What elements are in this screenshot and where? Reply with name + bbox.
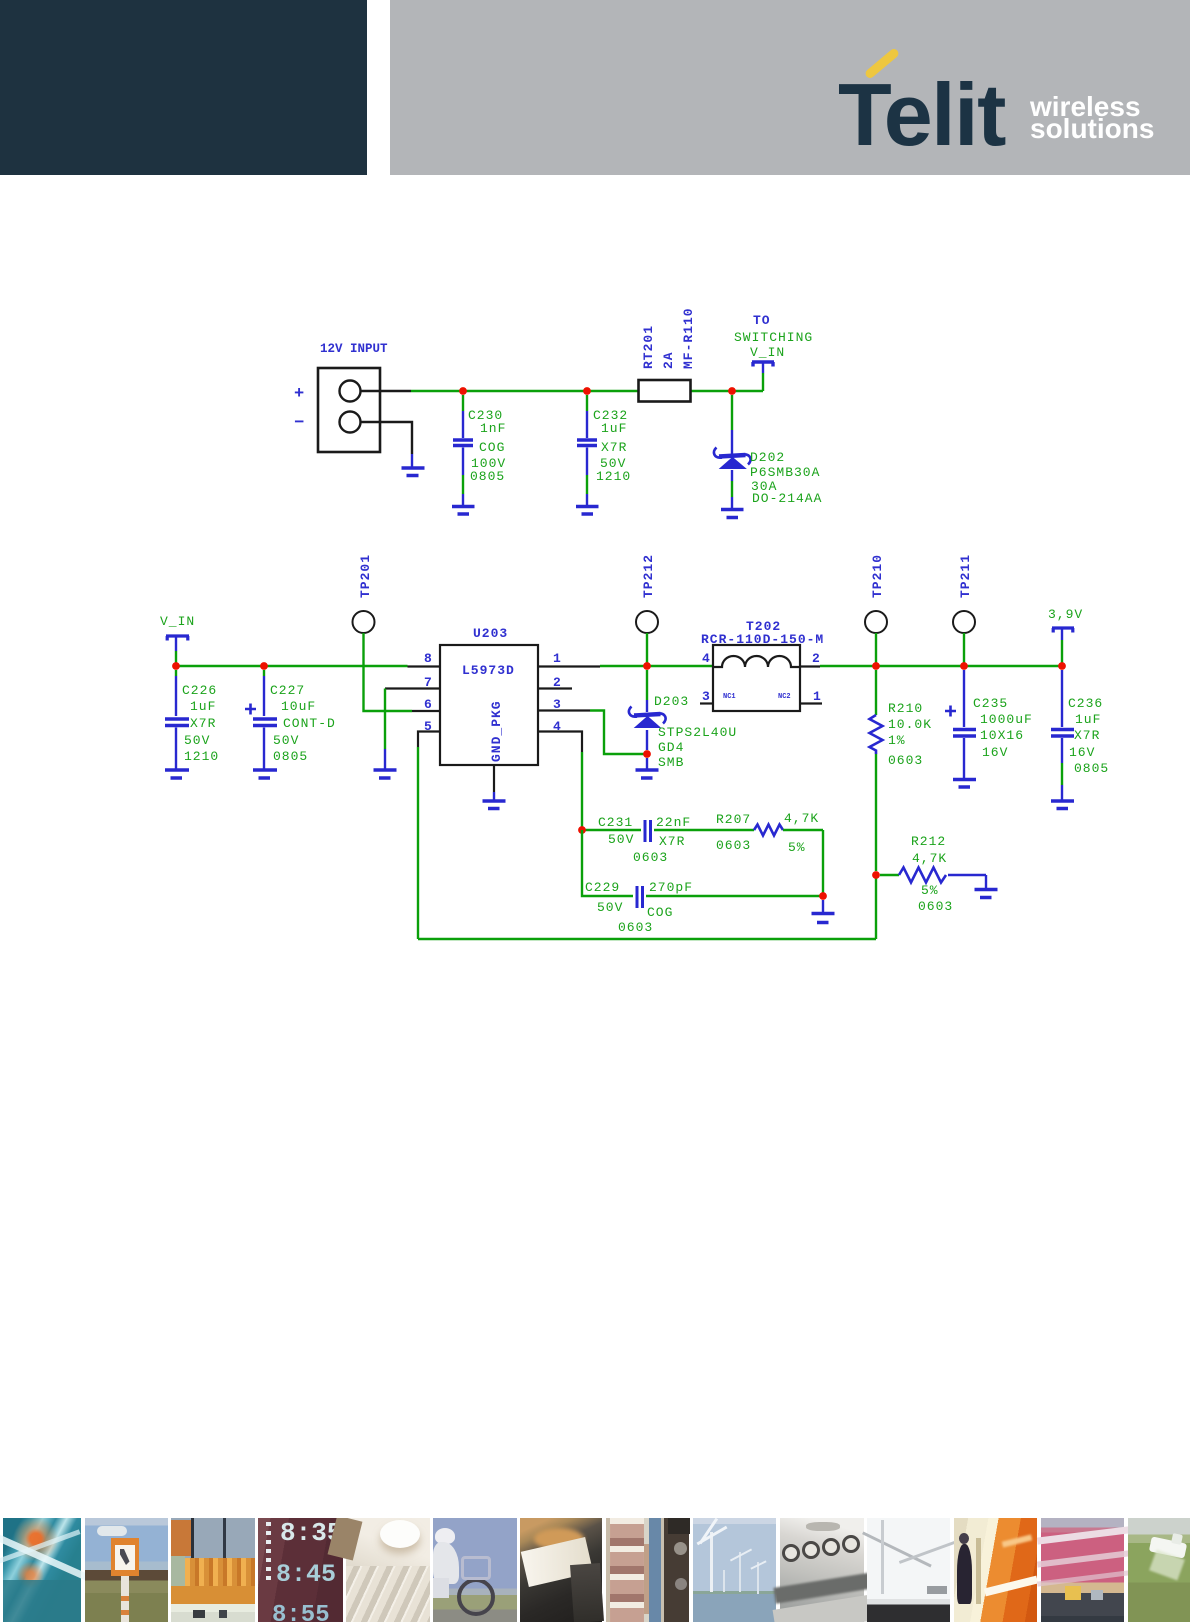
capacitor C235 polarized	[963, 670, 965, 727]
svg-text:TP211: TP211	[958, 554, 973, 598]
svg-text:3,9V: 3,9V	[1048, 607, 1083, 622]
svg-text:NC1: NC1	[723, 693, 736, 701]
C229 wire right	[646, 895, 823, 897]
svg-text:22nF: 22nF	[656, 815, 691, 830]
svg-text:10uF: 10uF	[281, 699, 316, 714]
svg-text:50V: 50V	[184, 733, 210, 748]
svg-text:1%: 1%	[888, 733, 906, 748]
svg-text:MF-R110: MF-R110	[681, 307, 696, 369]
ground D202	[721, 510, 744, 518]
svg-text:D202: D202	[750, 450, 785, 465]
svg-text:270pF: 270pF	[649, 880, 693, 895]
wire TP211 down	[963, 633, 965, 666]
svg-text:+: +	[294, 385, 305, 404]
svg-text:1uF: 1uF	[1075, 712, 1101, 727]
svg-text:1uF: 1uF	[190, 699, 216, 714]
wire black from pin1	[361, 390, 412, 392]
test point TP211	[953, 611, 975, 633]
capacitor C231 row wire left	[582, 829, 641, 831]
photo tile 9 turbines	[693, 1518, 777, 1622]
C229 row wire left	[582, 830, 633, 896]
svg-text:R212: R212	[911, 834, 946, 849]
junction C226	[172, 662, 180, 670]
photo tile 12 subway	[954, 1518, 1038, 1622]
resistor R210	[875, 670, 877, 715]
svg-text:1210: 1210	[596, 469, 631, 484]
capacitor C236	[1061, 670, 1063, 727]
svg-text:2: 2	[812, 651, 821, 666]
power symbol V_IN2	[166, 636, 189, 641]
svg-text:SMB: SMB	[658, 755, 684, 770]
svg-text:0603: 0603	[716, 838, 751, 853]
diode D203 wire	[646, 670, 648, 700]
svg-text:8: 8	[424, 651, 433, 666]
svg-text:R210: R210	[888, 701, 923, 716]
capacitor C226	[175, 670, 177, 676]
svg-text:4: 4	[702, 651, 711, 666]
svg-text:C226: C226	[182, 683, 217, 698]
wire T202 to output	[800, 665, 820, 667]
svg-text:10.0K: 10.0K	[888, 717, 932, 732]
wire TP210 down	[875, 633, 877, 666]
svg-text:50V: 50V	[273, 733, 299, 748]
junction C227	[260, 662, 268, 670]
svg-text:16V: 16V	[1069, 745, 1095, 760]
svg-text:0603: 0603	[633, 850, 668, 865]
filmstrip	[0, 1518, 1190, 1622]
test point TP210	[865, 611, 887, 633]
svg-text:5%: 5%	[921, 883, 939, 898]
svg-text:TP210: TP210	[870, 554, 885, 598]
photo tile 2 phone sign	[85, 1518, 169, 1622]
junction C230	[459, 387, 467, 395]
svg-text:C236: C236	[1068, 696, 1103, 711]
svg-text:C231: C231	[598, 815, 633, 830]
svg-text:TP212: TP212	[641, 554, 656, 598]
junction C229	[819, 892, 827, 900]
photo tile 1 abstract teal	[3, 1518, 81, 1622]
T202 pin3 stub	[700, 702, 713, 704]
photo tile 10 gauge	[780, 1518, 864, 1622]
bottom feedback rail	[418, 875, 876, 939]
ground C227	[253, 770, 277, 778]
Telit logo yellow slash	[864, 47, 900, 80]
svg-text:U203: U203	[473, 626, 508, 641]
photo tile 13 pink shelves	[1041, 1518, 1125, 1622]
svg-text:1210: 1210	[184, 749, 219, 764]
IC U203 body	[440, 645, 538, 765]
junction C232	[583, 387, 591, 395]
svg-text:C227: C227	[270, 683, 305, 698]
svg-text:TP201: TP201	[358, 554, 373, 598]
svg-text:RCR-110D-150-M: RCR-110D-150-M	[701, 632, 824, 647]
svg-text:3: 3	[702, 689, 711, 704]
svg-text:12V INPUT: 12V INPUT	[320, 342, 388, 356]
resistor R212	[899, 868, 946, 883]
svg-text:1uF: 1uF	[601, 421, 627, 436]
svg-text:50V: 50V	[597, 900, 623, 915]
pin1 wire	[538, 665, 600, 667]
svg-text:L5973D: L5973D	[462, 663, 515, 678]
ground C229	[822, 900, 824, 912]
svg-text:SWITCHING: SWITCHING	[734, 330, 813, 345]
svg-text:X7R: X7R	[659, 834, 685, 849]
svg-text:X7R: X7R	[190, 716, 216, 731]
capacitor C230	[462, 395, 464, 411]
photo tile 8 vending	[606, 1518, 690, 1622]
junction R212	[872, 871, 880, 879]
ground C236	[1051, 801, 1074, 809]
R207 wire right and down	[783, 830, 823, 896]
svg-text:C235: C235	[973, 696, 1008, 711]
pin7 wire to ground	[385, 687, 440, 689]
svg-text:0805: 0805	[1074, 761, 1109, 776]
svg-text:0805: 0805	[273, 749, 308, 764]
svg-text:16V: 16V	[982, 745, 1008, 760]
photo tile 6 cyclist	[433, 1518, 517, 1622]
ground C226	[165, 770, 189, 778]
wire green main top rail	[411, 390, 763, 392]
svg-text:1000uF: 1000uF	[980, 712, 1033, 727]
svg-text:COG: COG	[479, 440, 505, 455]
diode D202 wire	[731, 395, 733, 430]
power symbol V_IN	[752, 362, 774, 367]
inductor T202 body	[713, 645, 800, 711]
svg-text:1: 1	[553, 651, 562, 666]
junction TP212	[643, 662, 651, 670]
ground C235	[953, 780, 976, 788]
svg-text:50V: 50V	[608, 832, 634, 847]
svg-text:4,7K: 4,7K	[912, 851, 947, 866]
photo tile 11 white interior	[867, 1518, 950, 1622]
svg-text:CONT-D: CONT-D	[283, 716, 336, 731]
capacitor C229 symbol	[637, 886, 643, 908]
svg-text:4,7K: 4,7K	[784, 811, 819, 826]
U203 gnd pkg pin	[493, 765, 495, 792]
svg-text:0603: 0603	[888, 753, 923, 768]
test point TP201	[353, 611, 375, 633]
svg-text:1nF: 1nF	[480, 421, 506, 436]
wire TP212 down	[646, 633, 648, 666]
photo tile 3 containers	[171, 1518, 255, 1622]
T202 pin1 stub	[800, 702, 822, 704]
connector J body	[318, 368, 380, 452]
diode D203 symbol	[629, 707, 666, 724]
pin3 wire to D203	[538, 709, 590, 711]
R212 wire right	[948, 874, 986, 876]
C231 wire right	[654, 829, 754, 831]
connector pin circle 2	[340, 412, 361, 433]
svg-text:RT201: RT201	[641, 325, 656, 369]
wireless solutions tagline	[1030, 96, 1154, 140]
photo tile 14 camera green	[1128, 1518, 1190, 1622]
svg-text:NC2: NC2	[778, 693, 791, 701]
capacitor C227 polarized	[263, 670, 265, 676]
junction C236	[1058, 662, 1066, 670]
ground pin7	[374, 770, 397, 778]
pin5 wire down	[418, 732, 440, 748]
junction D203	[643, 750, 651, 758]
svg-text:R207: R207	[716, 812, 751, 827]
svg-text:C229: C229	[585, 880, 620, 895]
svg-text:0603: 0603	[618, 920, 653, 935]
svg-text:−: −	[294, 414, 305, 433]
ground connector	[402, 468, 425, 476]
power bar 3,9V	[1052, 628, 1074, 633]
capacitor C232	[586, 395, 588, 411]
ground C230	[452, 507, 475, 515]
pin4 wire down to C231	[538, 732, 582, 753]
wire main rail2	[176, 665, 408, 667]
pin2 stub	[538, 687, 572, 689]
header dark navy block	[0, 0, 367, 175]
D202 lower wire	[731, 470, 733, 481]
ground C232	[576, 507, 599, 515]
photo tile 4 clock	[258, 1518, 343, 1622]
wire blue to ground	[411, 454, 413, 467]
svg-text:X7R: X7R	[1074, 728, 1100, 743]
plus sign C227	[245, 704, 256, 715]
svg-text:GD4: GD4	[658, 740, 684, 755]
resistor R207	[754, 825, 783, 836]
junction TP211	[960, 662, 968, 670]
svg-text:0805: 0805	[470, 469, 505, 484]
svg-text:STPS2L40U: STPS2L40U	[658, 725, 737, 740]
svg-text:COG: COG	[647, 905, 673, 920]
svg-text:5%: 5%	[788, 840, 806, 855]
ground D203	[636, 770, 659, 778]
svg-text:P6SMB30A: P6SMB30A	[750, 465, 820, 480]
diode D202 symbol	[714, 448, 751, 465]
svg-text:V_IN: V_IN	[160, 614, 195, 629]
header gray block	[390, 0, 1190, 175]
svg-text:V_IN: V_IN	[750, 345, 785, 360]
resistor RT201 body	[639, 380, 691, 402]
plus sign C235	[945, 706, 956, 717]
D203 lower wire	[646, 758, 648, 769]
junction D202	[728, 387, 736, 395]
svg-text:D203: D203	[654, 694, 689, 709]
test point TP212	[636, 611, 658, 633]
svg-text:6: 6	[424, 697, 433, 712]
connector pin circle 1	[340, 381, 361, 402]
junction C231	[578, 826, 586, 834]
svg-text:X7R: X7R	[601, 440, 627, 455]
junction TP210	[872, 662, 880, 670]
Telit logo text	[838, 64, 1058, 159]
wire black from pin2 to ground	[361, 422, 413, 454]
svg-text:TO: TO	[753, 313, 771, 328]
svg-text:2A: 2A	[661, 351, 676, 369]
wire TP201 to pin6	[364, 633, 413, 711]
R212 wire left	[880, 874, 899, 876]
svg-text:0603: 0603	[918, 899, 953, 914]
svg-text:DO-214AA: DO-214AA	[752, 491, 822, 506]
ground R212	[975, 890, 998, 898]
photo tile 7 dark printer	[520, 1518, 602, 1622]
photo tile 5 laptop	[346, 1518, 430, 1622]
svg-text:1: 1	[813, 689, 822, 704]
ground U203	[483, 801, 506, 809]
svg-text:GND_PKG: GND_PKG	[489, 700, 504, 762]
svg-text:10X16: 10X16	[980, 728, 1024, 743]
inductor winding	[713, 656, 800, 667]
capacitor C231 symbol	[645, 820, 651, 842]
